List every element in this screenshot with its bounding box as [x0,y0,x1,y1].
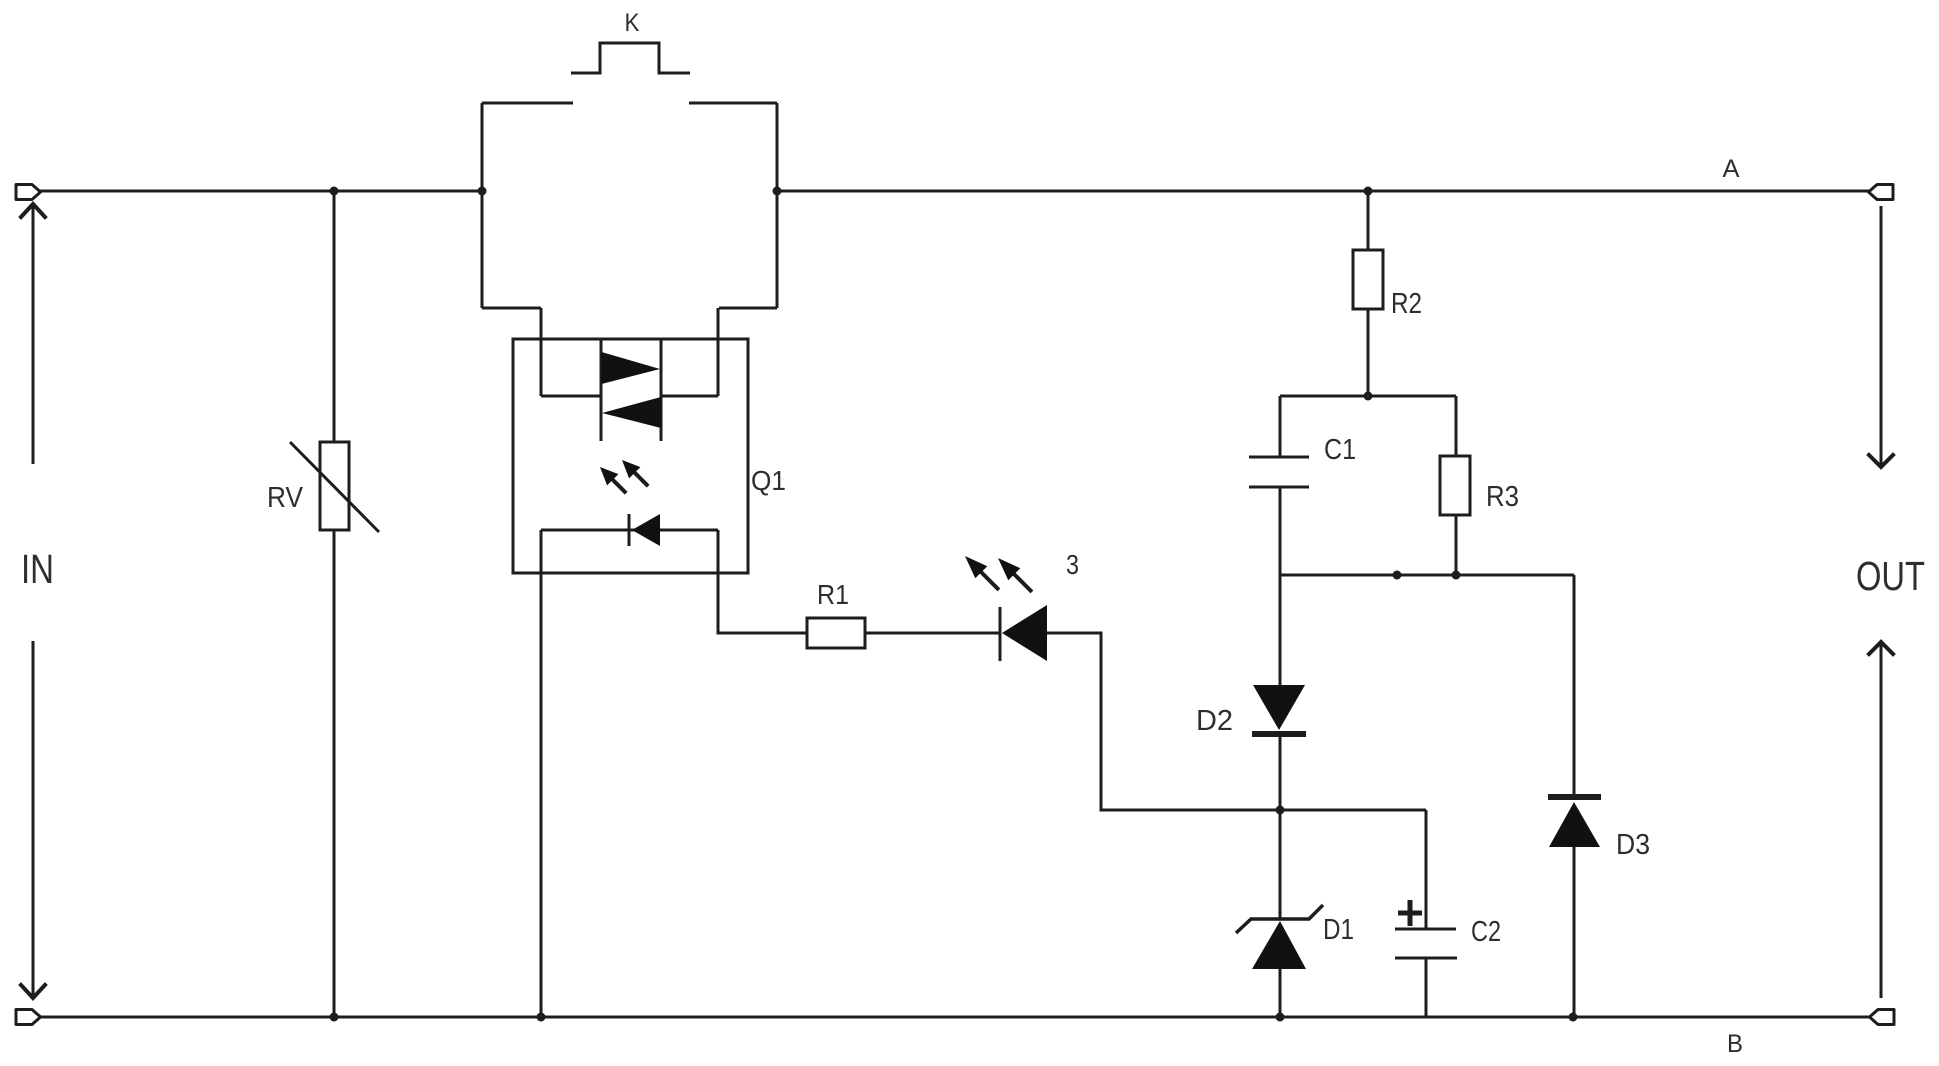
svg-text:R1: R1 [817,579,849,610]
svg-text:C2: C2 [1471,916,1501,948]
svg-text:A: A [1723,155,1740,183]
svg-text:K: K [625,9,640,37]
svg-text:IN: IN [21,546,54,592]
svg-text:B: B [1727,1030,1743,1058]
svg-text:RV: RV [267,482,304,514]
svg-text:R3: R3 [1486,481,1519,513]
svg-text:3: 3 [1066,549,1079,580]
svg-text:C1: C1 [1324,434,1356,466]
svg-text:Q1: Q1 [751,465,786,496]
svg-text:D2: D2 [1196,705,1233,737]
svg-text:R2: R2 [1391,288,1422,320]
svg-text:OUT: OUT [1856,553,1925,599]
svg-text:D3: D3 [1616,829,1650,861]
svg-text:D1: D1 [1323,914,1354,946]
